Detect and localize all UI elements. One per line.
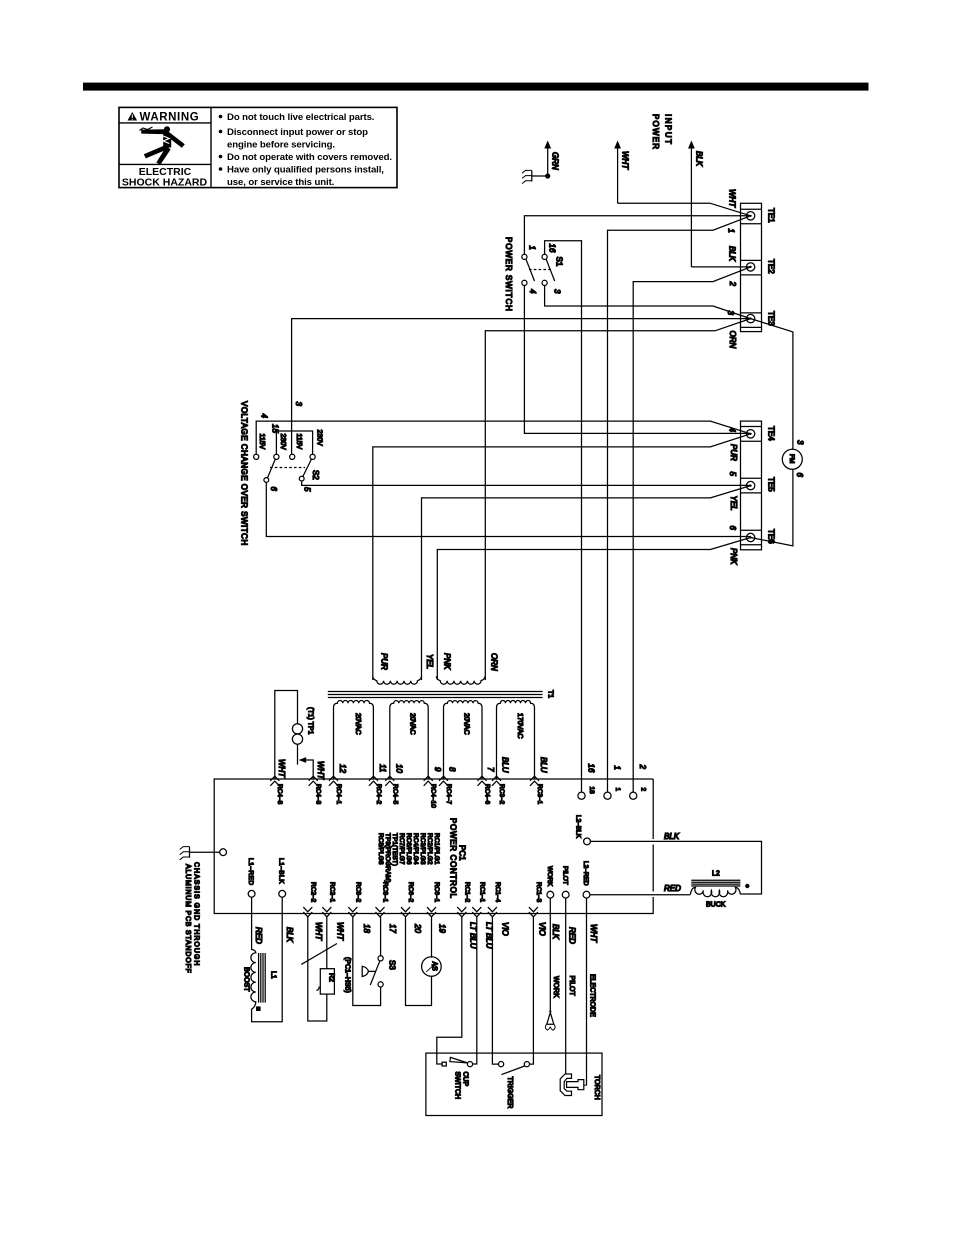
wire RC1-1 to cup switch bbox=[473, 917, 477, 1064]
svg-text:4: 4 bbox=[528, 289, 537, 294]
inductor L2 core bbox=[691, 880, 740, 886]
torch box bbox=[426, 1053, 602, 1115]
wire RC1-3 to trigger bbox=[530, 917, 534, 1064]
svg-text:RC4–3: RC4–3 bbox=[315, 784, 322, 805]
svg-text:18: 18 bbox=[362, 924, 371, 933]
svg-text:BLK: BLK bbox=[728, 246, 737, 262]
pin RC2-2 bbox=[303, 882, 316, 917]
svg-text:ORN: ORN bbox=[490, 653, 499, 671]
pin RC6-1 bbox=[427, 882, 440, 917]
terminal TE1 bbox=[746, 212, 754, 220]
svg-text:Do not touch live electrical p: Do not touch live electrical parts. bbox=[227, 112, 374, 123]
svg-text:PILOT: PILOT bbox=[562, 866, 569, 885]
svg-text:TP1(TEST): TP1(TEST) bbox=[391, 833, 398, 866]
transformer T1 secondary 2 (20VAC) bbox=[390, 701, 428, 779]
trigger contacts bbox=[499, 1062, 530, 1067]
terminal TE4 bbox=[746, 430, 754, 438]
svg-text:L1–BLK: L1–BLK bbox=[278, 858, 285, 884]
chassis ground symbol (PC1) bbox=[180, 847, 220, 860]
svg-text:TRIGGER: TRIGGER bbox=[506, 1077, 513, 1109]
svg-text:2: 2 bbox=[728, 281, 737, 287]
terminal L2-RED on PC1 bbox=[583, 891, 590, 898]
svg-text:SHOCK HAZARD: SHOCK HAZARD bbox=[122, 176, 208, 188]
wire S1-4 to TE4 bbox=[524, 286, 750, 434]
wire 1: TE1 to PC1 pin 1 bbox=[608, 216, 751, 792]
svg-text:BLK: BLK bbox=[695, 151, 704, 167]
svg-text:19: 19 bbox=[438, 924, 447, 933]
svg-text:RC2–1: RC2–1 bbox=[329, 882, 336, 903]
terminal TE5 bbox=[746, 481, 754, 489]
svg-text:15: 15 bbox=[271, 424, 280, 433]
transformer T1 core bbox=[328, 692, 543, 698]
pin RC4-7 bbox=[439, 776, 452, 805]
svg-text:WORK: WORK bbox=[546, 866, 553, 887]
svg-text:RC4/PLG4: RC4/PLG4 bbox=[412, 833, 419, 865]
svg-text:WHT: WHT bbox=[314, 922, 323, 941]
svg-text:3: 3 bbox=[796, 440, 805, 445]
svg-text:5: 5 bbox=[728, 472, 737, 477]
pin RC1-3 bbox=[529, 882, 542, 917]
svg-text:BLU: BLU bbox=[501, 757, 510, 773]
pin RC4-10 bbox=[424, 776, 437, 808]
wire TE3 to FM bbox=[751, 319, 793, 450]
svg-text:WHT: WHT bbox=[336, 922, 345, 941]
pin RC3-2 bbox=[492, 776, 505, 805]
resistor R2 loop wires bbox=[308, 917, 327, 1021]
svg-text:BOOST: BOOST bbox=[243, 967, 250, 992]
svg-text:17: 17 bbox=[388, 924, 397, 933]
wire ELECTRODE lead bbox=[586, 898, 588, 1085]
wire BLK input bbox=[688, 141, 751, 267]
switch S3 lever + button bbox=[362, 961, 380, 985]
svg-text:L2: L2 bbox=[712, 871, 720, 878]
wire S1-3 to TE3 bbox=[545, 286, 751, 319]
wire YEL: TE5 to T1 primary bbox=[422, 486, 751, 680]
wire S2 bracket 230V terminals bbox=[276, 431, 312, 454]
pin RC1-2 bbox=[457, 882, 470, 917]
svg-text:BUCK: BUCK bbox=[706, 902, 726, 909]
svg-text:FM: FM bbox=[788, 454, 795, 463]
svg-text:POWER CONTROL: POWER CONTROL bbox=[449, 818, 458, 899]
svg-text:RC7/PLG7: RC7/PLG7 bbox=[398, 833, 405, 865]
svg-text:INPUT: INPUT bbox=[664, 114, 673, 146]
wire 2: TE2 to PC1 pin 2 bbox=[633, 267, 750, 792]
pin RC6-2 bbox=[401, 882, 414, 917]
svg-text:RC8–2: RC8–2 bbox=[355, 882, 362, 903]
svg-text:PUR: PUR bbox=[380, 653, 389, 670]
svg-text:RC4–8: RC4–8 bbox=[276, 784, 283, 805]
svg-text:Have only qualified persons in: Have only qualified persons install, bbox=[227, 165, 384, 176]
svg-text:5: 5 bbox=[303, 487, 312, 492]
svg-text:115V: 115V bbox=[258, 434, 265, 450]
svg-text:CHASSIS GND THROUGH: CHASSIS GND THROUGH bbox=[193, 862, 200, 966]
ELECTRIC SHOCK HAZARD label bbox=[122, 166, 208, 188]
svg-text:L1–RED: L1–RED bbox=[247, 858, 254, 886]
svg-text:RC4–10: RC4–10 bbox=[430, 784, 437, 808]
cup switch contacts bbox=[442, 1062, 473, 1067]
terminal 1 on PC1 bbox=[604, 792, 611, 799]
pin RC3-1 bbox=[530, 776, 543, 805]
svg-text:230V: 230V bbox=[279, 434, 286, 451]
wire 4: S2 115V-a to TE4 bbox=[256, 421, 750, 454]
switch S2 terminal 230V-a bbox=[274, 454, 279, 459]
svg-text:6: 6 bbox=[728, 526, 737, 531]
switch S3 contacts bbox=[378, 956, 383, 987]
svg-text:BLU: BLU bbox=[539, 757, 548, 773]
svg-text:RC1–2: RC1–2 bbox=[464, 882, 471, 903]
svg-text:TORCH: TORCH bbox=[593, 1075, 600, 1100]
solenoid AS circle bbox=[422, 957, 442, 977]
svg-text:RED: RED bbox=[254, 927, 263, 944]
svg-text:L2–BLK: L2–BLK bbox=[575, 815, 582, 839]
svg-text:WHT: WHT bbox=[589, 924, 598, 943]
shock hazard icon (electrocuted person) bbox=[140, 126, 185, 164]
svg-text:VIO: VIO bbox=[501, 922, 510, 936]
terminal block TE4-TE6 bbox=[741, 421, 762, 550]
svg-text:PILOT: PILOT bbox=[568, 976, 575, 997]
svg-text:RC2–2: RC2–2 bbox=[310, 882, 317, 903]
switch S2 terminal 115V-b bbox=[290, 454, 295, 459]
svg-text:16: 16 bbox=[587, 764, 596, 773]
pin RC2-1 bbox=[322, 882, 335, 917]
fan motor FM circle bbox=[782, 449, 802, 469]
svg-text:RC3–1: RC3–1 bbox=[536, 784, 543, 805]
svg-text:use, or service this unit.: use, or service this unit. bbox=[227, 177, 334, 188]
svg-text:170VAC: 170VAC bbox=[516, 713, 523, 739]
svg-text:9: 9 bbox=[433, 767, 442, 772]
wire PUR: TE4 to T1 primary bbox=[373, 434, 751, 680]
svg-text:RC6–1: RC6–1 bbox=[433, 882, 440, 903]
svg-text:RC2/PLG2: RC2/PLG2 bbox=[426, 833, 433, 865]
svg-text:RC1–1: RC1–1 bbox=[479, 882, 486, 903]
svg-text:S1: S1 bbox=[555, 257, 564, 267]
L1 polarity square bbox=[256, 1006, 261, 1011]
pin RC4-2 bbox=[369, 776, 382, 805]
wire RED: L2-RED to L2 buck bbox=[590, 894, 691, 896]
torch head symbol bbox=[560, 1074, 586, 1096]
svg-text:230V: 230V bbox=[316, 430, 323, 447]
svg-text:WORK: WORK bbox=[552, 976, 559, 998]
transformer T1 secondary 3 (20VAC) bbox=[444, 701, 483, 779]
svg-text:1: 1 bbox=[727, 229, 736, 233]
pin RC8-2 bbox=[348, 882, 361, 917]
terminal WORK on PC1 bbox=[547, 891, 554, 898]
svg-text:VIO: VIO bbox=[538, 922, 547, 936]
svg-text:L1: L1 bbox=[270, 971, 277, 979]
warning header bbox=[128, 112, 200, 124]
wire 5: S2 arm5 to TE5 bbox=[302, 481, 751, 485]
svg-text:1: 1 bbox=[613, 766, 622, 770]
wire RC4-8 to TP1 bbox=[275, 691, 298, 780]
pin RC4-5 bbox=[385, 776, 398, 805]
warning bullet list bbox=[219, 112, 392, 188]
svg-text:RC8–1: RC8–1 bbox=[382, 882, 389, 903]
svg-text:WHT: WHT bbox=[728, 189, 737, 208]
svg-text:ORN: ORN bbox=[728, 331, 737, 349]
svg-text:7: 7 bbox=[486, 767, 495, 772]
top rule bar bbox=[83, 83, 869, 91]
transformer T1 secondary 1 (20VAC) bbox=[334, 701, 374, 779]
L2 polarity dot bbox=[745, 884, 749, 888]
terminal TE3 bbox=[746, 314, 754, 322]
wire S1-1 to TE1 bbox=[524, 216, 750, 255]
terminal block TE1-TE3 bbox=[741, 203, 762, 331]
svg-text:WHT: WHT bbox=[277, 759, 286, 778]
warning box frame bbox=[119, 107, 397, 187]
terminal L1-BLK bbox=[279, 890, 286, 897]
svg-text:1: 1 bbox=[528, 246, 537, 250]
switch S1 levers bbox=[526, 259, 555, 281]
switch S3 loop wires bbox=[353, 917, 381, 1006]
svg-text:R2: R2 bbox=[328, 973, 335, 982]
svg-text:TE4: TE4 bbox=[767, 426, 776, 441]
svg-text:T1: T1 bbox=[547, 690, 554, 698]
wire 3: TE3 to S2 115V-b bbox=[292, 319, 751, 455]
solenoid AS loop wires bbox=[406, 917, 432, 1006]
svg-text:18: 18 bbox=[588, 787, 595, 795]
svg-text:6: 6 bbox=[269, 487, 278, 492]
switch S2 arm 5 bbox=[299, 459, 311, 481]
svg-text:3: 3 bbox=[294, 402, 303, 407]
svg-text:BLK: BLK bbox=[551, 924, 560, 940]
wire RC1-4 to trigger bbox=[492, 917, 498, 1064]
transformer T1 secondary 4 (170VAC) bbox=[497, 701, 535, 779]
node: GRN junction dot bbox=[545, 173, 550, 178]
svg-text:RC6/PLG6: RC6/PLG6 bbox=[405, 833, 412, 865]
wire ORN: TE3 to T1 primary bbox=[485, 319, 750, 680]
terminal PILOT on PC1 bbox=[562, 891, 569, 898]
svg-text:3: 3 bbox=[726, 311, 735, 316]
svg-text:PUR: PUR bbox=[729, 444, 738, 461]
svg-text:ALUMINUM PCB STANDOFF: ALUMINUM PCB STANDOFF bbox=[184, 864, 191, 974]
svg-text:PC1: PC1 bbox=[458, 845, 467, 861]
inductor L2 coil bbox=[690, 887, 740, 896]
label INPUT POWER bbox=[651, 114, 673, 150]
svg-text:VOLTAGE CHANGE OVER SWITCH: VOLTAGE CHANGE OVER SWITCH bbox=[240, 401, 249, 546]
svg-text:WHT: WHT bbox=[621, 151, 630, 170]
svg-text:RC4–7: RC4–7 bbox=[445, 784, 452, 805]
svg-text:S3: S3 bbox=[388, 960, 397, 970]
svg-text:engine before servicing.: engine before servicing. bbox=[227, 140, 335, 151]
svg-text:16: 16 bbox=[548, 244, 557, 253]
transformer T1 primary coil 2 bbox=[436, 676, 485, 684]
svg-text:RED: RED bbox=[664, 884, 681, 893]
svg-text:10: 10 bbox=[395, 764, 404, 773]
wire FM to TE6 bbox=[751, 469, 793, 546]
svg-text:BLK: BLK bbox=[664, 832, 680, 841]
transformer T1 primary coil 1 bbox=[373, 676, 422, 684]
svg-text:L2–RED: L2–RED bbox=[582, 861, 589, 886]
svg-text:LT BLU: LT BLU bbox=[469, 922, 478, 949]
terminal TE2 bbox=[746, 263, 754, 271]
svg-text:Disconnect input power or stop: Disconnect input power or stop bbox=[227, 127, 368, 138]
wire 6: S2 arm6 to TE6 bbox=[266, 482, 750, 536]
R2 hook mark bbox=[317, 987, 320, 991]
pin RC4-6 bbox=[478, 776, 491, 805]
svg-text:WHT: WHT bbox=[316, 761, 325, 780]
svg-text:20VAC: 20VAC bbox=[409, 713, 416, 735]
svg-text:20: 20 bbox=[413, 923, 422, 933]
svg-text:PNK: PNK bbox=[729, 548, 738, 565]
svg-text:2: 2 bbox=[640, 788, 647, 792]
svg-text:CUP: CUP bbox=[462, 1072, 469, 1087]
svg-text:12: 12 bbox=[338, 764, 347, 773]
svg-text:TP3(PROGRAM): TP3(PROGRAM) bbox=[384, 833, 391, 883]
svg-text:8: 8 bbox=[448, 767, 457, 772]
pin RC4-8 bbox=[270, 776, 283, 805]
wire TP1 to RC4-3 with arrow bbox=[298, 744, 314, 779]
svg-text:GRN: GRN bbox=[551, 152, 560, 170]
cup switch lever (wedge) bbox=[450, 1057, 468, 1063]
pin RC1-1 bbox=[472, 882, 485, 917]
svg-text:(PC1–HS5): (PC1–HS5) bbox=[344, 957, 351, 993]
wire GRN with arrow bbox=[544, 141, 551, 177]
svg-text:RC1–3: RC1–3 bbox=[535, 882, 542, 903]
wire PNK: TE6 to T1 primary bbox=[437, 538, 750, 681]
svg-text:RC1–4: RC1–4 bbox=[494, 882, 501, 903]
pin RC4-1 bbox=[329, 776, 342, 805]
svg-text:RC4–1: RC4–1 bbox=[335, 784, 342, 805]
svg-text:3: 3 bbox=[553, 289, 562, 294]
svg-text:POWER SWITCH: POWER SWITCH bbox=[504, 237, 513, 312]
terminal 18 on PC1 bbox=[578, 792, 585, 799]
svg-text:Do not operate with covers rem: Do not operate with covers removed. bbox=[227, 152, 392, 163]
wire WORK lead bbox=[549, 898, 551, 1010]
wire RC1-2 to cup switch bbox=[437, 917, 462, 1064]
svg-text:WARNING: WARNING bbox=[140, 112, 200, 124]
switch S2 terminal 230V-b bbox=[310, 454, 315, 459]
S2 mechanical link (dashed) bbox=[270, 467, 305, 469]
svg-text:20VAC: 20VAC bbox=[463, 713, 470, 735]
work clamp symbol bbox=[545, 1010, 555, 1031]
switch S1 contacts bbox=[522, 254, 547, 285]
terminal 2 on PC1 bbox=[630, 792, 637, 799]
svg-text:TE1: TE1 bbox=[767, 208, 776, 223]
svg-text:RC1/PLG1: RC1/PLG1 bbox=[433, 833, 440, 865]
svg-text:11: 11 bbox=[378, 764, 387, 772]
svg-text:RED: RED bbox=[568, 927, 577, 944]
svg-text:YEL: YEL bbox=[729, 496, 738, 511]
svg-text:POWER: POWER bbox=[651, 114, 660, 150]
thermostat TP1 bbox=[292, 724, 302, 745]
svg-text:BLK: BLK bbox=[285, 927, 294, 943]
svg-text:RC8/PLG8: RC8/PLG8 bbox=[377, 833, 384, 865]
svg-text:1: 1 bbox=[614, 788, 621, 792]
svg-text:20VAC: 20VAC bbox=[354, 713, 361, 735]
pin RC4-3 bbox=[309, 776, 322, 805]
wire WHT input bbox=[614, 141, 750, 216]
svg-text:2: 2 bbox=[638, 764, 647, 770]
terminal L2-BLK on PC1 bbox=[584, 838, 591, 845]
svg-text:S2: S2 bbox=[311, 470, 320, 480]
R2 pointer line bbox=[301, 944, 337, 965]
svg-text:TE2: TE2 bbox=[767, 259, 776, 274]
trigger lever bbox=[501, 1066, 524, 1075]
inductor L1 (boost) coil + wires bbox=[251, 897, 282, 1022]
PC1 board outline bbox=[214, 779, 653, 914]
chassis ground symbol (input) bbox=[522, 170, 548, 183]
svg-text:ELECTRODE: ELECTRODE bbox=[589, 974, 596, 1017]
svg-text:PNK: PNK bbox=[443, 653, 452, 670]
svg-text:(T1) TP1: (T1) TP1 bbox=[307, 707, 314, 735]
svg-text:YEL: YEL bbox=[425, 654, 434, 669]
terminal chassis gnd on PC1 bbox=[220, 849, 227, 856]
terminal TE6 bbox=[746, 533, 754, 541]
terminal L1-RED bbox=[248, 890, 255, 897]
svg-text:6: 6 bbox=[795, 473, 804, 478]
wire PILOT lead bbox=[565, 898, 567, 1073]
svg-text:RC4–6: RC4–6 bbox=[484, 784, 491, 805]
switch S2 arm 6 bbox=[264, 459, 275, 482]
svg-text:TE5: TE5 bbox=[767, 477, 776, 492]
wire S1-16 down (net 16) bbox=[545, 241, 582, 792]
svg-text:4: 4 bbox=[260, 414, 269, 419]
svg-text:SWITCH: SWITCH bbox=[454, 1072, 461, 1100]
svg-text:RC4–5: RC4–5 bbox=[391, 784, 398, 805]
svg-text:RC6–2: RC6–2 bbox=[407, 882, 414, 903]
resistor R2 body bbox=[320, 969, 334, 994]
pin RC8-1 bbox=[376, 882, 389, 917]
wire BLK: L2-BLK to L2 buck bbox=[590, 841, 761, 894]
inductor L1 core bbox=[259, 953, 266, 1003]
svg-text:RC3/PLG3: RC3/PLG3 bbox=[419, 833, 426, 865]
pin RC1-4 bbox=[488, 882, 501, 917]
svg-text:RC3–2: RC3–2 bbox=[498, 784, 505, 805]
svg-text:115V: 115V bbox=[295, 434, 302, 450]
switch S2 terminal 115V-a bbox=[254, 454, 259, 459]
svg-text:RC4–2: RC4–2 bbox=[375, 784, 382, 805]
